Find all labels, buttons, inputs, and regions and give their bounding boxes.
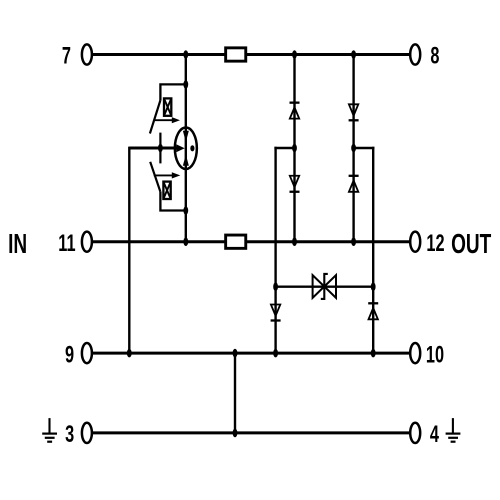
wire row 11-12 right segment: [247, 240, 411, 243]
junction top tap: [183, 80, 188, 89]
terminal 11: [82, 232, 92, 252]
indicator box top: [164, 98, 171, 115]
wire row 7-8 left segment: [91, 53, 224, 56]
junction row3 earth link: [233, 429, 238, 438]
wire row 9-10: [91, 352, 410, 355]
terminal 8: [410, 44, 420, 64]
junction row11 D4: [351, 237, 356, 246]
diode D3: [290, 176, 300, 192]
svg-text:7: 7: [62, 43, 71, 70]
wire row 11-12 left segment: [91, 240, 224, 243]
svg-text:3: 3: [65, 421, 74, 448]
junction suppressor right: [371, 282, 376, 291]
junction row11 arrester: [183, 237, 188, 246]
terminal 12: [410, 232, 420, 252]
junction suppressor left: [273, 282, 278, 291]
wire bottom disconnect tap: [160, 192, 185, 211]
wire row 3-4: [91, 431, 410, 434]
svg-text:9: 9: [65, 341, 74, 368]
suppressor diode U1: [313, 274, 336, 299]
junction row9 branch: [127, 349, 132, 358]
svg-text:4: 4: [430, 421, 440, 448]
wire suppressor row: [276, 286, 374, 288]
wire diode column left: [293, 55, 295, 242]
junction bottom tap: [183, 206, 188, 215]
diode D6: [368, 303, 378, 319]
wire jog mid right: [354, 147, 375, 149]
junction center electrode: [158, 144, 163, 153]
ground right: [446, 418, 461, 442]
diode D4: [349, 176, 359, 192]
resistor R1: [226, 48, 246, 61]
actuation arrow top: [154, 117, 180, 123]
gas discharge tube F1: [175, 128, 197, 170]
junction row11 D3: [292, 237, 297, 246]
wire earth link column: [234, 353, 236, 433]
wire arrester column: [185, 55, 187, 242]
wire center electrode horizontal: [129, 147, 177, 150]
center electrode bar: [159, 133, 161, 164]
wire jog mid left: [274, 147, 294, 149]
terminal 4: [410, 423, 420, 443]
wire clamp column left: [274, 147, 276, 353]
wire left branch vertical: [128, 147, 130, 354]
wire top disconnect tap: [160, 84, 185, 100]
svg-text:12: 12: [426, 230, 444, 257]
ground left: [42, 418, 57, 442]
junction mid right: [351, 144, 356, 153]
junction row9 earth link: [233, 349, 238, 358]
terminal 10: [410, 343, 420, 363]
junction mid left: [292, 144, 297, 153]
junction row7 arrester: [183, 50, 188, 59]
indicator box bottom: [163, 182, 170, 199]
wire row 7-8 right segment: [247, 53, 411, 56]
junction row7 D1: [292, 50, 297, 59]
switch blade top: [150, 101, 160, 134]
junction row9 D6: [371, 349, 376, 358]
svg-text:IN: IN: [8, 229, 27, 261]
resistor R2: [226, 235, 246, 248]
terminal 3: [82, 423, 92, 443]
wire clamp column right: [372, 147, 374, 353]
junction row7 D2: [351, 50, 356, 59]
switch blade bottom: [150, 162, 160, 192]
terminal 7: [82, 44, 92, 64]
svg-text:10: 10: [426, 341, 444, 368]
diode D2: [349, 104, 359, 120]
actuation arrow bottom: [154, 172, 181, 178]
diode D5: [271, 305, 281, 321]
svg-text:11: 11: [58, 230, 75, 257]
svg-text:OUT: OUT: [451, 229, 491, 261]
terminal 9: [82, 343, 92, 363]
junction row9 D5: [273, 349, 278, 358]
svg-text:8: 8: [430, 43, 439, 70]
diode D1: [290, 103, 300, 119]
wire diode column right: [352, 55, 354, 242]
